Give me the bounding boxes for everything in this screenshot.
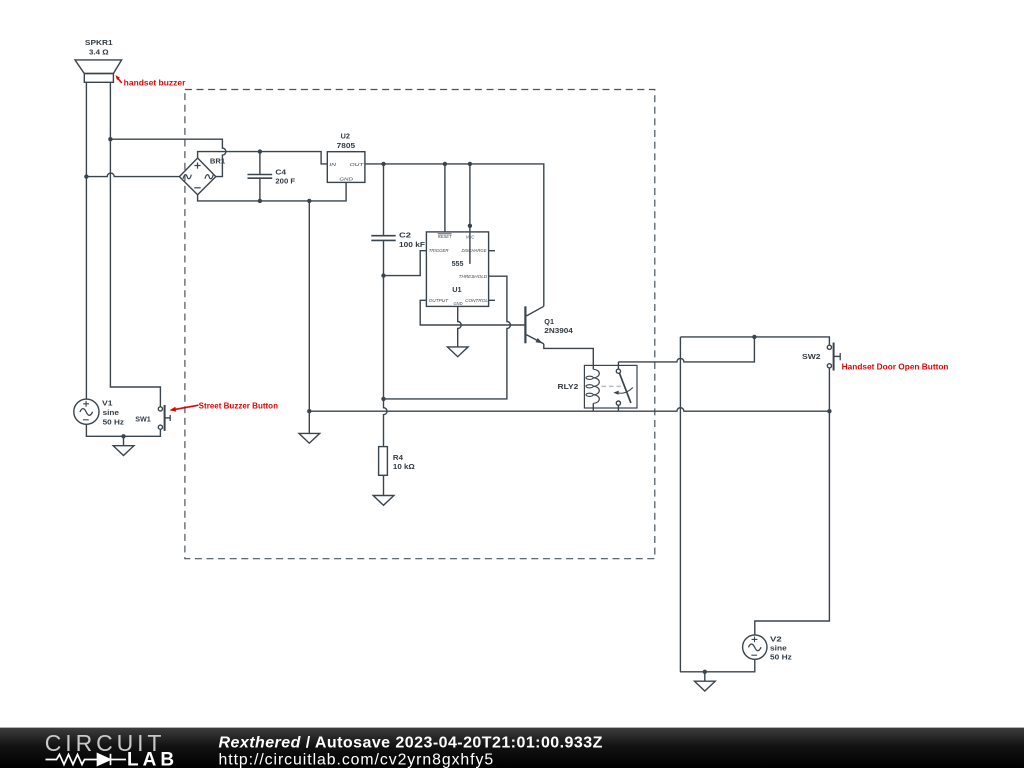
wire: gnd rail across to SW2 (hops over tall vertical) [309,408,829,411]
svg-text:100 kF: 100 kF [399,240,425,249]
svg-text:50 Hz: 50 Hz [103,417,125,426]
svg-text:DISCHARGE: DISCHARGE [462,248,488,253]
node: C4 bottom junction [258,199,262,203]
svg-text:TRIGGER: TRIGGER [429,248,450,253]
node: VCC drop junction [468,162,472,166]
svg-text:GND: GND [454,301,464,306]
voltage regulator U2 box [327,152,365,183]
wire: U1 GND pin down (hops over output wire) [458,306,462,347]
svg-text:Q1: Q1 [544,317,554,326]
svg-text:C2: C2 [399,231,411,240]
svg-text:IN: IN [329,162,337,167]
svg-text:Handset Door Open Button: Handset Door Open Button [842,363,949,372]
pin stub: DISCHARGE [489,250,495,252]
wire: RLY2 switch bottom lead [617,405,619,411]
wire: SPKR1 right lead down then to SW1 top [110,82,160,406]
wire: drop to U1 VCC pin [469,164,471,264]
wire: U1 OUTPUT to Q1 base [420,300,524,325]
svg-text:7805: 7805 [337,141,356,150]
wire: RLY2 coil bottom to gnd rail [592,403,594,411]
node: V1 ground junction [121,434,125,438]
resistor R4 [379,447,388,476]
wire: Q1 emitter to RLY2 coil top [544,344,594,369]
wire: ground stem under V1 [123,436,125,445]
node: OUT/C2 junction [381,162,385,166]
wire: tall vertical return [679,337,681,672]
transistor Q1 [525,306,543,344]
node: junction at top right feed [752,335,756,339]
node: trigger branch junction [381,273,385,277]
svg-text:SW1: SW1 [135,414,151,423]
wire: to U1 TRIGGER pin [384,251,427,276]
svg-text:U2: U2 [341,132,350,141]
timer U1 555 box [426,232,488,307]
svg-text:2N3904: 2N3904 [544,326,573,335]
wire: BR1 + output up to 5V rail into U2 IN [198,152,328,164]
svg-text:THRESHOLD: THRESHOLD [459,274,488,279]
wire: RLY2 common to right loop (hops over tall vertical) [618,337,754,362]
relay RLY2 [584,365,637,408]
wire: mid ground branch down from bottom rail [308,201,310,434]
wire: R4 bottom lead [383,475,385,495]
wire: drop to U1 RESET pin [444,164,446,232]
ground mid (in dashed box) [299,433,320,443]
annotation: Street Buzzer Button [169,401,278,411]
node: gnd rail start junction [307,409,311,413]
ground under R4 [373,496,394,506]
wire: U1 THRESHOLD to C2/R4 node (hops over output wire) [384,276,511,399]
svg-text:RLY2: RLY2 [558,382,579,391]
switch SW2 [827,343,840,371]
dashed enclosure box [185,90,655,559]
svg-text:sine: sine [103,408,119,417]
svg-text:BR1: BR1 [210,156,226,165]
svg-text:CONTROL: CONTROL [465,298,488,303]
svg-text:C4: C4 [275,167,287,176]
node: bottom-right ground junction [703,670,707,674]
svg-text:V1: V1 [102,399,113,408]
svg-text:Street Buzzer Button: Street Buzzer Button [199,401,279,410]
svg-text:U1: U1 [452,285,462,294]
wire: C2 bottom down to R4 (hops over gnd rail) [384,241,388,447]
svg-text:sine: sine [770,643,787,652]
pin RESET overline [438,233,452,235]
svg-text:50 Hz: 50 Hz [770,653,792,662]
svg-text:handset buzzer: handset buzzer [124,79,186,88]
wire: branch from left lead to BR1 AC left (hops over speaker wire) [86,173,179,176]
node: threshold branch junction [381,397,385,401]
ground bottom right [695,681,716,691]
svg-text:OUTPUT: OUTPUT [429,298,450,303]
source V2 [743,635,767,659]
svg-text:GND: GND [339,177,353,182]
node: junction speaker right / BR1 branch [108,137,112,141]
svg-text:3.4 Ω: 3.4 Ω [89,48,109,57]
svg-text:OUT: OUT [350,162,366,167]
wire: top right feed to SW2 [680,337,829,345]
pin stub: CONTROL [489,299,495,301]
svg-text:VCC: VCC [466,235,475,240]
svg-text:V2: V2 [770,634,782,643]
svg-text:10 kΩ: 10 kΩ [393,462,415,471]
svg-text:Rexthered / Autosave 2023-04-2: Rexthered / Autosave 2023-04-20T21:01:00… [219,735,603,752]
wire: V1 bottom rail to SW1 bottom [86,424,160,436]
svg-text:LAB: LAB [127,750,178,768]
source V1 [74,399,99,424]
svg-text:http://circuitlab.com/cv2yrn8g: http://circuitlab.com/cv2yrn8gxhfy5 [219,752,495,768]
wire: U2 OUT 5V rail to Q1 collector [365,164,544,306]
node: C4 top junction [258,149,262,153]
svg-text:R4: R4 [393,453,404,462]
svg-text:200 F: 200 F [275,177,295,186]
node: junction speaker left / BR1 left branch [84,174,88,178]
svg-text:555: 555 [452,259,465,268]
capacitor C4 [248,152,273,201]
node: SW2 / gnd rail junction [827,409,831,413]
wire: branch to BR1 AC right (hops over rail) [110,139,226,176]
bridge rectifier BR1 [179,158,215,195]
svg-text:SW2: SW2 [802,352,821,361]
annotation: handset buzzer [115,75,185,87]
wire: ground stem bottom right [704,672,706,681]
node: RESET drop junction [443,162,447,166]
logo resistor-diode glyph [46,754,127,765]
wire: SW2 bottom down through gnd rail to V2 top loop [755,368,830,635]
ground under V1 [113,446,134,456]
capacitor C2 [371,164,395,241]
switch SW1 [158,405,170,431]
wire: BR1 - output to ground rail and U2 GND pin [198,182,347,201]
speaker SPKR1 [75,60,122,82]
wire: RLY2 switch top lead [617,362,619,369]
svg-text:RESET: RESET [438,234,453,239]
node: VCC wire joint [468,224,472,228]
ground under U1 [447,347,468,357]
node: ground branch junction on bottom rail [307,199,311,203]
wire: SPKR1 left lead down to V1 [85,82,87,399]
wire: V2 bottom to bottom-right rail [680,659,755,672]
svg-text:SPKR1: SPKR1 [85,38,114,47]
